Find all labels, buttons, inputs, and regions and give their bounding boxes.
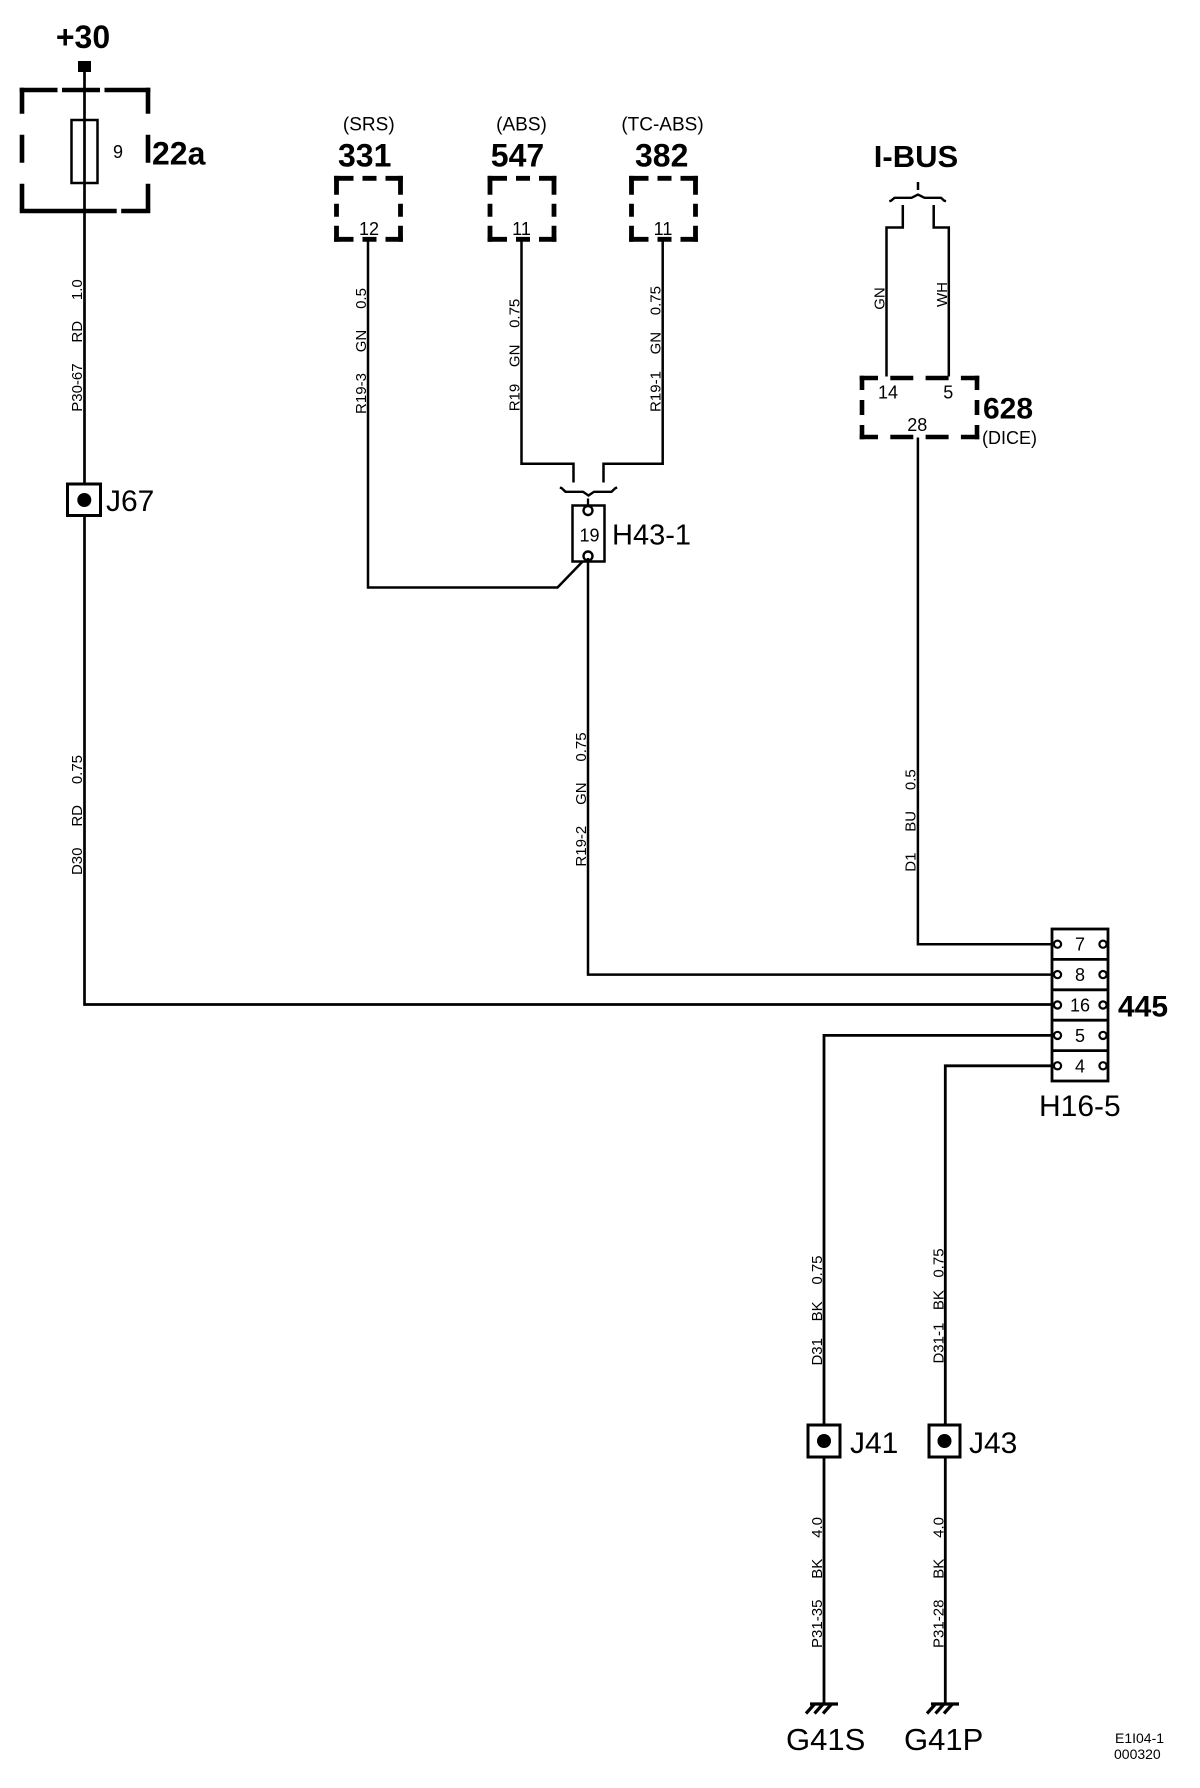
wire label WH — [934, 282, 951, 307]
ground label G41P — [904, 1722, 983, 1757]
node +30 label — [56, 19, 110, 55]
svg-text:G41S: G41S — [786, 1722, 865, 1757]
svg-text:628: 628 — [983, 393, 1033, 426]
connector 331 pin 12 — [359, 219, 379, 239]
ground label G41S — [786, 1722, 865, 1757]
svg-text:J41: J41 — [850, 1427, 898, 1460]
wire from 445 pin 5 down to ground G41S — [824, 1035, 1054, 1703]
wire label D30 RD 0.75 — [69, 755, 86, 875]
connector 382 designator — [635, 138, 688, 174]
junction J41 dot — [817, 1434, 831, 1448]
connector 445 row dividers — [1052, 959, 1108, 1050]
svg-text:D1 BU 0.5: D1 BU 0.5 — [903, 769, 920, 872]
wire label P31-35 BK 4.0 — [809, 1517, 826, 1648]
svg-text:5: 5 — [943, 383, 953, 403]
drawing date 000320 — [1114, 1746, 1161, 1762]
445 pin 4 — [1075, 1056, 1085, 1076]
svg-text:12: 12 — [359, 219, 379, 239]
svg-text:D30 RD 0.75: D30 RD 0.75 — [69, 755, 86, 875]
label H43-1 — [612, 520, 691, 552]
junction J67 box — [68, 484, 101, 516]
445 pin 16 — [1070, 996, 1090, 1016]
connector 445 pin circles — [1054, 941, 1107, 1070]
445 pin 8 — [1075, 965, 1085, 985]
module designator 628 — [983, 393, 1033, 426]
wire from 445 pin 4 down to ground G41P — [945, 1066, 1054, 1703]
svg-text:E1I04-1: E1I04-1 — [1115, 1730, 1164, 1746]
junction J67 dot — [77, 493, 91, 507]
connector 331 (SRS) label — [343, 115, 395, 136]
svg-text:R19 GN 0.75: R19 GN 0.75 — [507, 299, 524, 412]
svg-text:P31-28 BK 4.0: P31-28 BK 4.0 — [931, 1517, 948, 1648]
svg-text:7: 7 — [1075, 935, 1085, 955]
svg-text:19: 19 — [579, 526, 599, 546]
H43-1 top pin circle — [584, 506, 593, 515]
wire from DICE pin 28 to pin 7 of 445 — [918, 438, 1054, 945]
drawing number E1I04-1 — [1115, 1730, 1164, 1746]
svg-text:16: 16 — [1070, 996, 1090, 1016]
label J67 — [106, 485, 154, 518]
wire from H43-1 to pin 8 of 445 — [588, 558, 1054, 975]
junction J43 dot — [938, 1434, 952, 1448]
svg-text:445: 445 — [1118, 991, 1168, 1024]
connector 547 (ABS) label — [496, 115, 547, 136]
svg-text:382: 382 — [635, 138, 688, 174]
svg-text:(TC-ABS): (TC-ABS) — [621, 115, 703, 136]
svg-text:P31-35 BK 4.0: P31-35 BK 4.0 — [809, 1517, 826, 1648]
DICE pin 28 — [907, 415, 927, 435]
wire from 547 pin 11 to merge brace — [522, 240, 574, 483]
wire label D1 BU 0.5 — [903, 769, 920, 872]
wire label D31-1 BK 0.75 — [931, 1248, 948, 1363]
svg-text:5: 5 — [1075, 1026, 1085, 1046]
svg-text:H43-1: H43-1 — [612, 520, 691, 552]
label J43 — [969, 1427, 1017, 1460]
connector 331 designator — [338, 138, 391, 174]
fuse position number 9 — [113, 142, 123, 162]
wire from +30 through fuse 22a down to pin 16 of 445 — [85, 66, 1055, 1005]
svg-text:547: 547 — [491, 138, 544, 174]
svg-text:8: 8 — [1075, 965, 1085, 985]
svg-text:22a: 22a — [152, 136, 206, 172]
connector 445 body — [1052, 929, 1108, 1081]
connector 382 (TC-ABS) label — [621, 115, 703, 136]
fuse box designator 22a — [152, 136, 206, 172]
svg-text:R19-3 GN 0.5: R19-3 GN 0.5 — [353, 288, 370, 414]
connector 382 dashed box — [629, 176, 698, 242]
connector 382 pin 11 — [654, 219, 673, 239]
svg-text:(DICE): (DICE) — [982, 428, 1037, 448]
svg-text:G41P: G41P — [904, 1722, 983, 1757]
connector 547 pin 11 — [512, 219, 531, 239]
stub below brace to H43-1 — [587, 499, 589, 506]
svg-text:R19-1 GN 0.75: R19-1 GN 0.75 — [648, 286, 665, 412]
svg-text:(SRS): (SRS) — [343, 115, 395, 136]
wire label R19-3 GN 0.5 — [353, 288, 370, 414]
svg-text:11: 11 — [512, 219, 531, 239]
wire from 331 pin 12 to splice H43-1 — [368, 240, 587, 588]
svg-text:4: 4 — [1075, 1056, 1085, 1076]
svg-text:9: 9 — [113, 142, 123, 162]
I-BUS left wire GN to DICE pin 14 — [887, 205, 903, 377]
svg-text:D31-1 BK 0.75: D31-1 BK 0.75 — [931, 1248, 948, 1363]
svg-text:J43: J43 — [969, 1427, 1017, 1460]
H43-1 bottom pin circle — [584, 552, 593, 561]
wire from 382 pin 11 to merge brace — [604, 240, 663, 483]
label J41 — [850, 1427, 898, 1460]
I-BUS overbrace — [889, 195, 946, 202]
svg-text:WH: WH — [934, 282, 951, 307]
fuse box 22a dashed outline — [20, 88, 151, 214]
H43-1 pin number 19 — [579, 526, 599, 546]
wire label P31-28 BK 4.0 — [931, 1517, 948, 1648]
control module 628 (DICE) dashed box — [860, 376, 980, 440]
svg-text:J67: J67 — [106, 485, 154, 518]
DICE pin 5 — [943, 383, 953, 403]
module name (DICE) — [982, 428, 1037, 448]
wire label D31 BK 0.75 — [809, 1255, 826, 1365]
connector 547 dashed box — [488, 176, 557, 242]
connector 547 designator — [491, 138, 544, 174]
splice connector H43-1 body — [573, 506, 605, 562]
junction J41 box — [808, 1425, 840, 1457]
svg-text:28: 28 — [907, 415, 927, 435]
connector designator 445 — [1118, 991, 1168, 1024]
svg-text:+30: +30 — [56, 19, 110, 55]
node +30 terminal square — [78, 61, 91, 72]
I-BUS right wire WH to DICE pin 5 — [934, 205, 949, 377]
svg-text:000320: 000320 — [1114, 1746, 1161, 1762]
ground G41P symbol — [927, 1704, 959, 1714]
svg-text:11: 11 — [654, 219, 673, 239]
wire label P30-67 RD 1.0 — [69, 279, 86, 412]
fuse 9 element — [72, 120, 98, 183]
I-BUS stub dash — [917, 182, 920, 190]
wire label R19-1 GN 0.75 — [648, 286, 665, 412]
svg-text:GN: GN — [872, 287, 889, 310]
connector name H16-5 — [1039, 1090, 1121, 1123]
connector 331 dashed box — [334, 176, 403, 242]
I-BUS label — [874, 139, 958, 174]
junction J43 box — [929, 1425, 960, 1457]
svg-text:I-BUS: I-BUS — [874, 139, 958, 174]
svg-text:D31 BK 0.75: D31 BK 0.75 — [809, 1255, 826, 1365]
DICE pin 14 — [878, 383, 898, 403]
wire label GN — [872, 287, 889, 310]
svg-text:(ABS): (ABS) — [496, 115, 547, 136]
svg-text:P30-67 RD 1.0: P30-67 RD 1.0 — [69, 279, 86, 412]
445 pin 5 — [1075, 1026, 1085, 1046]
svg-text:14: 14 — [878, 383, 898, 403]
ground G41S symbol — [806, 1704, 838, 1714]
svg-text:H16-5: H16-5 — [1039, 1090, 1121, 1123]
merge underbrace above H43-1 — [560, 488, 617, 496]
445 pin 7 — [1075, 935, 1085, 955]
wire label R19-2 GN 0.75 — [573, 732, 590, 866]
svg-text:R19-2 GN 0.75: R19-2 GN 0.75 — [573, 732, 590, 866]
wire label R19 GN 0.75 — [507, 299, 524, 412]
svg-text:331: 331 — [338, 138, 391, 174]
